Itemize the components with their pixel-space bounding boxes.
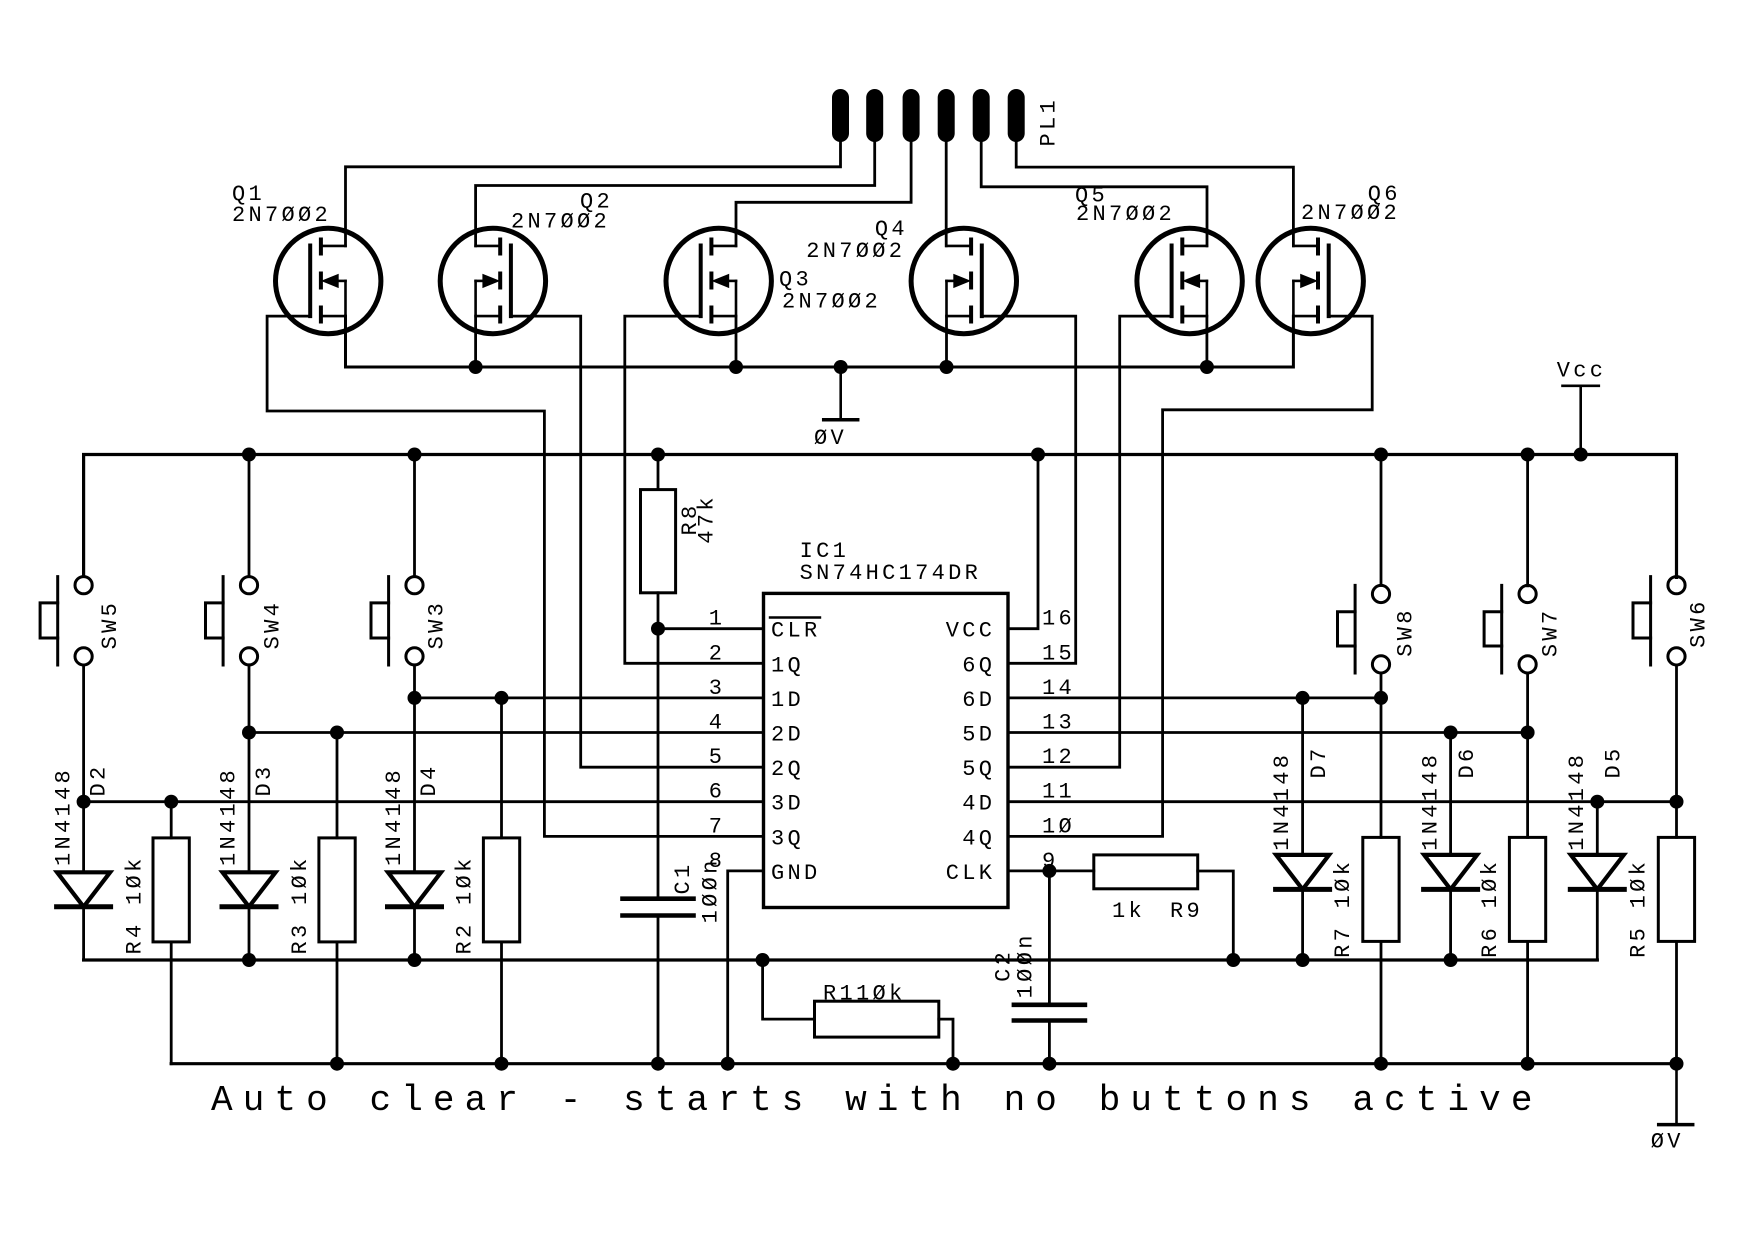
resistor R5 10k body	[1658, 837, 1694, 941]
junction diode bus at R9	[1226, 953, 1240, 967]
wire 1D to R2	[500, 698, 503, 838]
resistor R4 10k body	[153, 838, 189, 942]
svg-text:1Q: 1Q	[771, 653, 804, 678]
wire SW3 to D4 anode	[413, 665, 416, 873]
wire R3 to bottom bus	[336, 942, 339, 1064]
wire Q6 gate to IC pin10 4Q	[1008, 316, 1372, 836]
switch SW4 pushbutton	[206, 577, 258, 665]
wire diode cathode bus	[84, 958, 1598, 961]
junction Q5 source	[1200, 360, 1214, 374]
svg-text:3D: 3D	[771, 792, 804, 817]
wire SW8 to R7	[1380, 673, 1383, 837]
connector PL1 pin 2	[866, 89, 883, 142]
wire IC pin16 VCC to bus	[1008, 455, 1038, 629]
switch SW7 pushbutton	[1484, 585, 1536, 673]
wire bottom 0V bus	[171, 1062, 1676, 1065]
svg-text:SN74HC174DR: SN74HC174DR	[800, 561, 982, 586]
diode D5 1N4148	[1570, 855, 1624, 890]
wire Q5 source to bus	[1206, 316, 1209, 367]
junction diode bus at D4	[408, 953, 422, 967]
wire PL1 pin2 to Q2 drain	[476, 142, 875, 246]
svg-text:R7 1Øk: R7 1Øk	[1331, 859, 1356, 958]
svg-text:6Q: 6Q	[962, 653, 995, 678]
svg-text:5D: 5D	[962, 723, 995, 748]
wire bus to SW3	[413, 455, 416, 577]
wire 6D to D7 anode	[1301, 698, 1304, 855]
svg-text:1N4148: 1N4148	[51, 767, 76, 866]
diode D4 1N4148	[388, 872, 442, 907]
wire SW5 to D2 anode	[82, 665, 85, 872]
junction 1D at SW3	[408, 691, 422, 705]
junction 3D at R4	[164, 795, 178, 809]
power symbol Vcc	[1563, 386, 1599, 455]
wire 2D to R3	[336, 733, 339, 838]
wire 5D to D6 anode	[1449, 733, 1452, 855]
wire D6 cathode to diode bus	[1449, 889, 1452, 960]
svg-text:1Ø: 1Ø	[1042, 814, 1075, 839]
svg-text:SW4: SW4	[261, 600, 286, 650]
wire Q1 gate to IC pin7 3Q	[267, 316, 763, 836]
resistor R1 10k body	[815, 1001, 939, 1037]
ground 0V (bottom right)	[1659, 1064, 1693, 1125]
junction bottom bus at C2	[1042, 1057, 1056, 1071]
svg-text:5Q: 5Q	[962, 757, 995, 782]
svg-text:C1: C1	[671, 861, 696, 894]
wire R4 to bottom bus	[170, 942, 173, 1064]
transistor Q1 2N7002	[276, 228, 381, 333]
junction 4D at SW6	[1670, 795, 1684, 809]
wire D3 cathode to diode bus	[248, 907, 251, 960]
svg-text:2D: 2D	[771, 723, 804, 748]
wire PL1 pin3 to Q3 drain	[736, 142, 911, 246]
junction 2D at SW4	[242, 726, 256, 740]
junction Vcc bus at R8	[651, 448, 665, 462]
wire bus to SW8	[1380, 455, 1383, 586]
svg-text:5: 5	[709, 745, 726, 770]
junction bottom bus at GND	[721, 1057, 735, 1071]
wire 3D to R4	[170, 802, 173, 838]
svg-text:15: 15	[1042, 641, 1075, 666]
junction bottom bus at R6	[1521, 1057, 1535, 1071]
wire main Vcc bus	[84, 455, 1677, 578]
junction bottom bus at C1	[651, 1057, 665, 1071]
wire IC pin8 GND to bottom bus	[728, 871, 764, 1064]
svg-text:CLR: CLR	[771, 619, 821, 644]
svg-text:SW5: SW5	[98, 600, 123, 650]
junction diode bus at D3	[242, 953, 256, 967]
connector PL1 pin 3	[903, 89, 920, 142]
wire D2 cathode to diode bus	[82, 907, 85, 960]
svg-text:2N7ØØ2: 2N7ØØ2	[232, 203, 331, 228]
junction 3D at D2	[77, 795, 91, 809]
junction diode bus at R1	[756, 953, 770, 967]
svg-text:R2 1Øk: R2 1Øk	[452, 855, 477, 954]
svg-text:GND: GND	[771, 861, 821, 886]
wire R9 to diode bus	[1198, 871, 1234, 960]
svg-text:2: 2	[709, 641, 726, 666]
wire PL1 pin5 to Q5 drain	[981, 142, 1207, 246]
wire R1 to bottom bus	[939, 1019, 953, 1064]
connector PL1 pin 4	[938, 89, 955, 142]
junction 4D at D5	[1590, 795, 1604, 809]
resistor R9 1k body	[1094, 855, 1198, 889]
connector PL1 pin 6	[1008, 89, 1025, 142]
resistor R8 47k body	[641, 490, 676, 593]
svg-text:47k: 47k	[695, 494, 720, 544]
junction Vcc bus at SW7	[1521, 448, 1535, 462]
junction bottom bus at R7	[1374, 1057, 1388, 1071]
wire 4D to D5 anode	[1596, 802, 1599, 855]
junction Vcc bus at SW3	[408, 448, 422, 462]
junction Q3 source	[729, 360, 743, 374]
wire bus to SW4	[248, 455, 251, 577]
wire SW6 to R5	[1675, 665, 1678, 837]
switch SW6 pushbutton	[1633, 577, 1685, 665]
resistor R2 10k body	[483, 838, 519, 942]
junction Vcc bus at SW4	[242, 448, 256, 462]
svg-text:CLK: CLK	[946, 861, 996, 886]
diode D3 1N4148	[222, 872, 276, 907]
junction Q4 source	[940, 360, 954, 374]
wire IC pin9 CLK to R9	[1008, 870, 1094, 873]
svg-text:2N7ØØ2: 2N7ØØ2	[782, 290, 881, 315]
wire D5 cathode to diode bus	[1596, 889, 1599, 960]
wire CLK node to C2	[1048, 871, 1051, 1005]
svg-text:1ØØn: 1ØØn	[699, 857, 724, 923]
wire PL1 pin4 to Q4 drain	[945, 142, 948, 246]
junction Vcc bus at SW8	[1374, 448, 1388, 462]
svg-text:ØV: ØV	[814, 426, 847, 451]
svg-text:SW6: SW6	[1687, 598, 1712, 648]
resistor R7 10k body	[1363, 837, 1399, 941]
wire Q5 gate to IC pin12 5Q	[1008, 316, 1172, 767]
svg-text:1N4148: 1N4148	[1419, 752, 1444, 851]
svg-text:R9: R9	[1170, 899, 1203, 924]
junction 1D at R2	[495, 691, 509, 705]
wire bus to R8	[657, 455, 660, 490]
transistor Q5 2N7002	[1137, 228, 1242, 333]
svg-text:PL1: PL1	[1037, 97, 1062, 147]
junction 5D at SW7	[1521, 726, 1535, 740]
junction 6D at D7	[1296, 691, 1310, 705]
svg-text:6D: 6D	[962, 688, 995, 713]
svg-text:ØV: ØV	[1651, 1130, 1684, 1155]
svg-text:4Q: 4Q	[962, 826, 995, 851]
junction diode bus at D6	[1444, 953, 1458, 967]
svg-text:D3: D3	[252, 763, 277, 796]
svg-text:D7: D7	[1307, 745, 1332, 778]
junction 2D at R3	[330, 726, 344, 740]
switch SW5 pushbutton	[40, 577, 92, 665]
svg-text:1ØØn: 1ØØn	[1014, 932, 1039, 998]
wire R7 to bottom bus	[1380, 941, 1383, 1063]
wire D4 cathode to diode bus	[413, 907, 416, 960]
resistor R6 10k body	[1509, 837, 1545, 941]
svg-text:SW7: SW7	[1539, 608, 1564, 658]
svg-text:1N4148: 1N4148	[217, 767, 242, 866]
wire PL1 pin1 to Q1 drain	[346, 142, 841, 246]
capacitor C1 100n	[623, 899, 694, 916]
wire 3D net pin6 row	[84, 800, 764, 803]
svg-text:R4 1Øk: R4 1Øk	[123, 855, 148, 954]
svg-text:D6: D6	[1455, 745, 1480, 778]
junction diode bus at D7	[1296, 953, 1310, 967]
svg-text:1k: 1k	[1112, 899, 1145, 924]
resistor R3 10k body	[319, 838, 355, 942]
wire R5 to bottom bus	[1675, 941, 1678, 1063]
junction bottom bus at R3	[330, 1057, 344, 1071]
transistor Q4 2N7002	[911, 228, 1016, 333]
diode D7 1N4148	[1276, 855, 1330, 890]
svg-text:VCC: VCC	[946, 619, 996, 644]
svg-text:1N4148: 1N4148	[1270, 752, 1295, 851]
svg-text:2N7ØØ2: 2N7ØØ2	[806, 239, 905, 264]
svg-text:R6 1Øk: R6 1Øk	[1478, 859, 1503, 958]
wire Q3 source to bus	[735, 316, 738, 367]
svg-text:SW8: SW8	[1394, 607, 1419, 657]
wire SW4 to D3 anode	[248, 665, 251, 873]
junction Q2 source	[469, 360, 483, 374]
junction bottom bus at R2	[495, 1057, 509, 1071]
svg-text:4D: 4D	[962, 792, 995, 817]
wire C2 to bottom bus	[1048, 1021, 1051, 1064]
overline for CLR pin name	[770, 616, 820, 618]
capacitor C2 100n	[1014, 1005, 1085, 1021]
svg-text:D4: D4	[417, 763, 442, 796]
junction bottom bus at R1	[946, 1057, 960, 1071]
svg-text:2Q: 2Q	[771, 757, 804, 782]
wire Q4 source to bus	[945, 316, 948, 367]
wire SW7 to R6	[1526, 673, 1529, 837]
svg-text:D5: D5	[1602, 745, 1627, 778]
IC U1 SN74HC174DR body	[764, 593, 1009, 907]
svg-text:1N4148: 1N4148	[1565, 752, 1590, 851]
wire Q4 gate to IC pin15 6Q	[982, 316, 1076, 663]
switch SW8 pushbutton	[1338, 585, 1390, 673]
svg-text:SW3: SW3	[424, 600, 449, 650]
wire diode bus to R1	[763, 960, 815, 1019]
wire IC pin1 CLR stub	[658, 627, 764, 630]
svg-text:1D: 1D	[771, 688, 804, 713]
svg-text:R5 1Øk: R5 1Øk	[1627, 859, 1652, 958]
wire PL1 pin6 to Q6 drain	[1016, 142, 1293, 246]
junction Vcc bus at IC VCC	[1031, 448, 1045, 462]
svg-text:16: 16	[1042, 607, 1075, 632]
svg-text:1N4148: 1N4148	[382, 767, 407, 866]
junction Vcc bus at Vcc symbol	[1574, 448, 1588, 462]
ground 0V (source bus)	[824, 367, 858, 420]
junction bottom bus at R5	[1670, 1057, 1684, 1071]
svg-text:Vcc: Vcc	[1557, 358, 1607, 383]
wire R2 to bottom bus	[500, 942, 503, 1064]
wire 6D net pin14 row	[1008, 697, 1381, 700]
wire Q2 source to bus	[474, 316, 477, 367]
svg-text:R11Øk: R11Øk	[823, 982, 906, 1007]
svg-text:3Q: 3Q	[771, 826, 804, 851]
wire 5D net pin13 row	[1008, 731, 1528, 734]
wire 4D net pin11 row	[1008, 800, 1677, 803]
switch SW3 pushbutton	[371, 577, 423, 665]
wire source bus 0V net	[346, 316, 1294, 367]
transistor Q3 2N7002	[666, 228, 771, 333]
diode D6 1N4148	[1424, 855, 1478, 890]
junction 6D at SW8	[1374, 691, 1388, 705]
svg-text:2N7ØØ2: 2N7ØØ2	[511, 210, 610, 235]
svg-text:7: 7	[709, 814, 726, 839]
svg-text:2N7ØØ2: 2N7ØØ2	[1301, 201, 1400, 226]
wire R8 to CLR node and C1	[657, 593, 660, 899]
connector PL1 pin 5	[973, 89, 990, 142]
wire bus to SW7	[1526, 455, 1529, 586]
svg-text:Auto clear - starts with no bu: Auto clear - starts with no buttons acti…	[211, 1080, 1543, 1121]
svg-text:2N7ØØ2: 2N7ØØ2	[1076, 202, 1175, 227]
connector PL1 pin 1	[832, 89, 849, 142]
svg-text:R3 1Øk: R3 1Øk	[288, 855, 313, 954]
transistor Q6 2N7002	[1258, 228, 1363, 333]
wire Q2 gate to IC pin5 2Q	[511, 316, 764, 767]
svg-text:12: 12	[1042, 745, 1075, 770]
transistor Q2 2N7002	[440, 228, 545, 333]
junction CLK at C2	[1042, 864, 1056, 878]
svg-text:D2: D2	[86, 763, 111, 796]
junction CLR node	[651, 622, 665, 636]
wire R6 to bottom bus	[1526, 941, 1529, 1063]
junction 5D at D6	[1444, 726, 1458, 740]
wire D7 cathode to diode bus	[1301, 889, 1304, 960]
wire 1D net pin3 row	[415, 697, 764, 700]
wire Q3 gate to IC pin2 1Q	[625, 316, 764, 663]
diode D2 1N4148	[57, 872, 111, 907]
wire C1 to bottom bus	[657, 916, 660, 1064]
junction ground tap	[834, 360, 848, 374]
wire 2D net pin4 row	[249, 731, 764, 734]
